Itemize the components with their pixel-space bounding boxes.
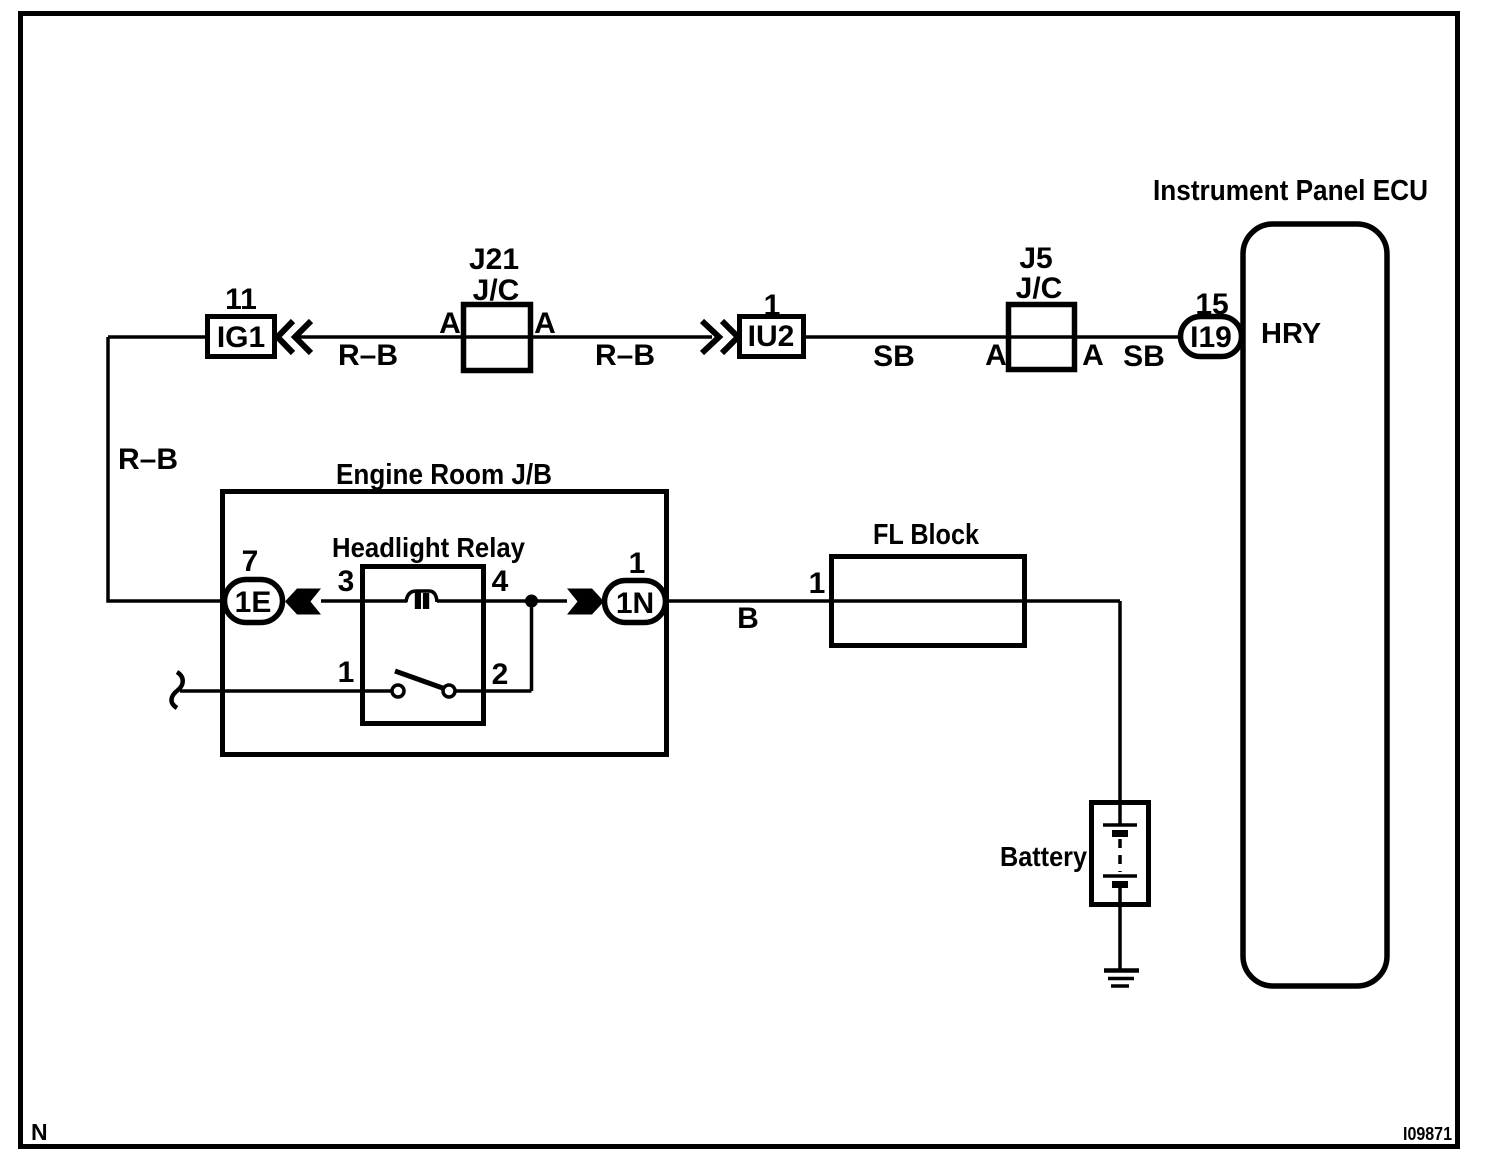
svg-text:B: B	[737, 602, 759, 635]
svg-text:11: 11	[225, 283, 257, 316]
svg-text:1: 1	[809, 567, 826, 600]
svg-text:I09871: I09871	[1403, 1124, 1452, 1144]
svg-text:SB: SB	[873, 340, 915, 373]
svg-text:FL Block: FL Block	[873, 519, 980, 551]
svg-text:1N: 1N	[616, 587, 654, 620]
svg-text:IU2: IU2	[748, 320, 795, 353]
svg-text:Battery: Battery	[1000, 841, 1087, 872]
svg-text:Headlight Relay: Headlight Relay	[332, 532, 525, 563]
svg-text:A: A	[534, 307, 556, 340]
svg-text:7: 7	[242, 545, 259, 578]
svg-text:SB: SB	[1123, 340, 1165, 373]
svg-text:A: A	[1082, 339, 1104, 372]
svg-text:HRY: HRY	[1261, 318, 1321, 350]
svg-text:2: 2	[492, 658, 509, 691]
svg-text:J21: J21	[469, 243, 519, 276]
svg-text:N: N	[31, 1119, 48, 1145]
svg-text:J5: J5	[1019, 242, 1052, 275]
svg-text:J/C: J/C	[1016, 272, 1063, 305]
svg-text:R–B: R–B	[338, 339, 398, 372]
svg-text:1: 1	[629, 547, 646, 580]
svg-text:1E: 1E	[235, 586, 272, 619]
svg-text:A: A	[439, 307, 461, 340]
svg-text:1: 1	[764, 289, 781, 322]
svg-text:Engine Room J/B: Engine Room J/B	[336, 459, 552, 491]
svg-text:15: 15	[1195, 288, 1228, 321]
svg-text:3: 3	[338, 565, 355, 598]
svg-text:4: 4	[492, 565, 509, 598]
svg-text:R–B: R–B	[595, 339, 655, 372]
svg-text:I19: I19	[1190, 321, 1232, 354]
svg-text:1: 1	[338, 656, 355, 689]
svg-text:R–B: R–B	[118, 443, 178, 476]
svg-text:A: A	[985, 339, 1007, 372]
svg-text:J/C: J/C	[473, 274, 520, 307]
svg-text:Instrument Panel ECU: Instrument Panel ECU	[1153, 175, 1428, 207]
svg-text:IG1: IG1	[217, 321, 265, 354]
